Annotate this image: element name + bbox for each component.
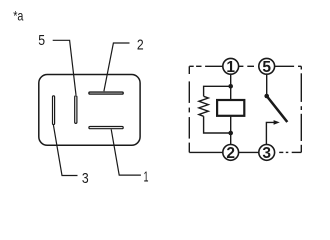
svg-text:2: 2 bbox=[137, 36, 144, 53]
svg-text:5: 5 bbox=[262, 59, 271, 76]
svg-text:2: 2 bbox=[226, 145, 235, 162]
svg-text:1: 1 bbox=[226, 59, 235, 76]
svg-text:3: 3 bbox=[82, 170, 89, 187]
svg-text:1: 1 bbox=[144, 169, 149, 186]
svg-text:5: 5 bbox=[38, 32, 45, 49]
svg-text:*a: *a bbox=[13, 7, 23, 23]
svg-text:3: 3 bbox=[262, 145, 271, 162]
